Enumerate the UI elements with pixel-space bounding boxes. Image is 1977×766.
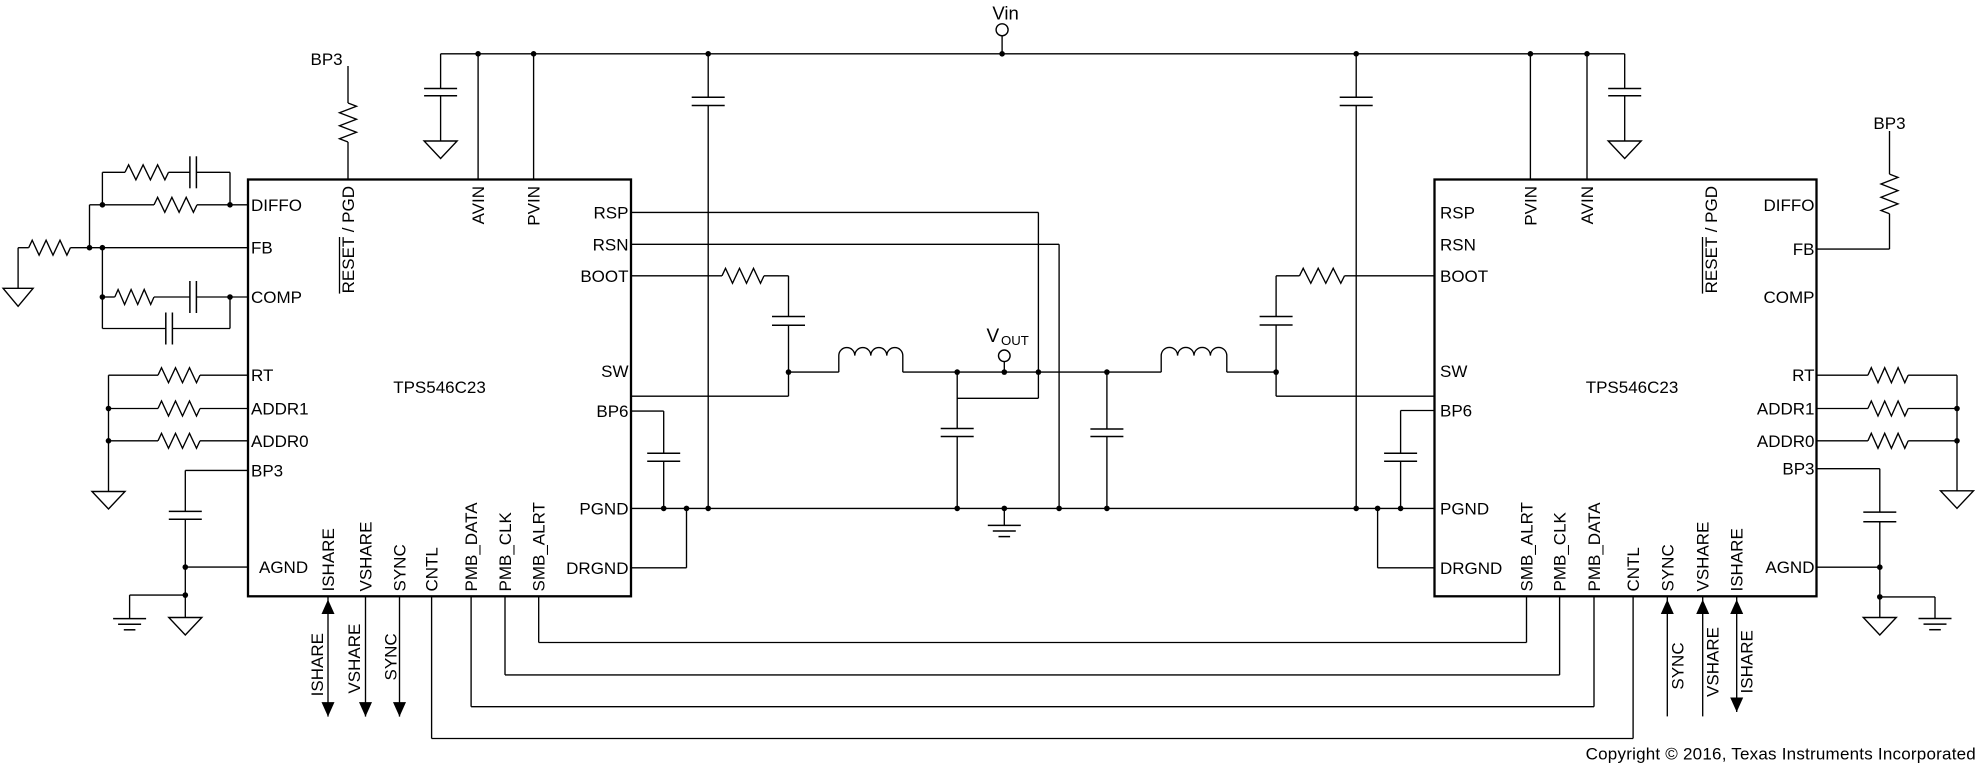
U1 pin COMP label	[251, 288, 302, 307]
wire COMP bottom branch	[102, 328, 165, 330]
wire U2 AGND	[1817, 566, 1880, 568]
wire U1 RSN	[631, 243, 1059, 245]
wire C8 to PGND	[663, 461, 665, 508]
ground earth (AGND right)	[1919, 619, 1952, 630]
wire R11 to vertical	[1908, 374, 1957, 376]
capacitor C8	[647, 453, 680, 461]
svg-text:AGND: AGND	[1765, 558, 1814, 577]
wire U2 DRGND	[1378, 508, 1435, 567]
U2 pin SW label	[1440, 362, 1467, 381]
U1 pin BP6 label	[596, 402, 628, 421]
junction dot SW node right	[1273, 369, 1279, 375]
wire Vin rail	[441, 53, 1625, 55]
junction dot SW node left	[786, 369, 792, 375]
wire AGND down	[184, 567, 186, 595]
svg-text:PMB_DATA: PMB_DATA	[1585, 502, 1604, 592]
U2 pin ADDR0 label	[1757, 432, 1815, 451]
wire DIFFO-FB jog	[90, 205, 103, 248]
U1 pin DIFFO label	[251, 196, 302, 215]
junction dot AGND right	[1877, 564, 1883, 570]
ground (AGND right)	[1863, 618, 1896, 636]
wire R12 to vertical	[1908, 408, 1957, 410]
svg-text:BOOT: BOOT	[1440, 267, 1488, 286]
svg-text:RSP: RSP	[594, 203, 629, 222]
svg-text:COMP: COMP	[1764, 288, 1815, 307]
BP3 net label (left)	[311, 50, 343, 69]
U2 pin RSN label	[1440, 235, 1476, 254]
wire U1 AGND	[185, 566, 248, 568]
resistor R8	[158, 433, 200, 448]
svg-text:BP3: BP3	[1782, 460, 1814, 479]
wire U2 SW	[1276, 372, 1434, 396]
IC U1 TPS546C23 (left)	[248, 180, 631, 597]
wire PMB_DATA bus	[471, 596, 1594, 706]
wire ADDR1 row	[109, 408, 159, 410]
wire FB-COMP vertical	[101, 248, 103, 329]
wire U1 PVIN	[533, 54, 535, 180]
wire C9 top	[956, 372, 958, 428]
svg-text:SMB_ALRT: SMB_ALRT	[1518, 502, 1537, 591]
ground (RT/ADDR)	[92, 492, 125, 510]
BP3 net label (right)	[1873, 114, 1905, 133]
wire U2 AVIN	[1586, 54, 1588, 180]
wire C6 to PGND rail	[707, 106, 709, 509]
wire AGND to earth ground	[130, 595, 186, 619]
U2 pin ISHARE label	[1728, 528, 1747, 591]
resistor R1	[340, 103, 357, 142]
wire R8 to U1 ADDR0	[200, 440, 248, 442]
svg-text:SYNC: SYNC	[382, 633, 401, 680]
svg-text:PGND: PGND	[1440, 499, 1489, 518]
wire DIFFO row left	[102, 204, 154, 206]
wire R2 to C1	[169, 171, 190, 173]
resistor R14	[1881, 174, 1898, 214]
ground earth (PGND)	[988, 525, 1021, 536]
wire PGND rail	[631, 507, 1435, 509]
junction dots COMP row	[100, 294, 233, 300]
wire R7 to U1 ADDR1	[200, 408, 248, 410]
svg-text:BP3: BP3	[1873, 114, 1905, 133]
junction dot AGND	[183, 564, 189, 570]
U2 pin SMB_ALRT label	[1518, 502, 1537, 591]
wire SMB_ALRT bus	[539, 596, 1527, 642]
wire C14 to rail	[1624, 54, 1626, 89]
wire R6 to U1 RT	[200, 374, 248, 376]
U2 pin RSP label	[1440, 203, 1475, 222]
capacitor C11	[1260, 317, 1293, 326]
U2 pin COMP label	[1764, 288, 1815, 307]
U2 pin ADDR1 label	[1757, 400, 1815, 419]
junction dots FB row	[87, 245, 106, 251]
junction dots VOUT row	[954, 369, 1109, 375]
resistor R11	[1868, 368, 1908, 383]
U2 pin CNTL label	[1624, 547, 1643, 591]
svg-text:RT: RT	[251, 366, 273, 385]
svg-text:BP3: BP3	[251, 461, 283, 480]
wire U1 BP6	[631, 411, 664, 453]
wire C7 to SW node	[788, 325, 790, 372]
resistor R4	[29, 240, 71, 255]
wire R4 to U1 FB	[70, 247, 248, 249]
VSHARE arrow right	[1696, 596, 1723, 716]
svg-text:ISHARE: ISHARE	[308, 633, 327, 696]
wire R9 to C7	[764, 276, 789, 317]
svg-text:RESET / PGD: RESET / PGD	[1702, 186, 1721, 293]
wire C5 to ground	[440, 96, 442, 141]
wire BP3 to R14	[1889, 131, 1891, 174]
wire RT/ADDR vertical right	[1956, 375, 1958, 491]
capacitor C15	[1863, 512, 1896, 522]
svg-text:FB: FB	[251, 239, 273, 258]
U1 pin VSHARE label	[357, 522, 376, 592]
wire AGND right down	[1879, 567, 1881, 597]
U1 pin RSP label	[594, 203, 629, 222]
wire PMB_CLK bus	[505, 596, 1560, 675]
U1 pin PMB_CLK label	[496, 511, 515, 591]
svg-text:DIFFO: DIFFO	[251, 196, 302, 215]
U1 pin ADDR1 label	[251, 400, 309, 419]
wire C4 to AGND	[184, 519, 186, 567]
SYNC arrow left	[382, 596, 407, 716]
wire RSP vertical	[1037, 212, 1039, 398]
ISHARE arrow right	[1730, 596, 1757, 712]
svg-text:TPS546C23: TPS546C23	[393, 378, 486, 397]
wire RSN vertical	[1058, 244, 1060, 508]
svg-text:V: V	[987, 326, 1000, 347]
U2 pin RT label	[1792, 366, 1814, 385]
U2 pin PGND label	[1440, 499, 1489, 518]
IC U2 TPS546C23 (right)	[1435, 180, 1817, 597]
inductor L2	[1161, 347, 1227, 372]
inductor L1	[839, 348, 903, 373]
U1 pin BP3 label	[251, 461, 283, 480]
junction dots on Vin rail	[475, 51, 1589, 57]
U2 pin FB label	[1793, 240, 1815, 259]
resistor R5	[115, 290, 154, 305]
svg-text:AVIN: AVIN	[469, 186, 488, 224]
wire C6 to rail	[707, 54, 709, 97]
capacitor C13	[1340, 97, 1373, 105]
svg-text:ADDR0: ADDR0	[1757, 432, 1815, 451]
svg-text:RT: RT	[1792, 366, 1814, 385]
wire AGND to triangle	[184, 595, 186, 617]
junction dot RSN on PGND	[1056, 506, 1062, 512]
svg-text:COMP: COMP	[251, 288, 302, 307]
svg-text:PMB_CLK: PMB_CLK	[1551, 511, 1570, 591]
wire C14 to ground	[1624, 96, 1626, 141]
U2 pin PMB_DATA label	[1585, 502, 1604, 592]
junction dots PGND rail	[661, 506, 1403, 512]
svg-text:RSN: RSN	[593, 235, 629, 254]
wire BP3 to R1	[347, 66, 349, 103]
svg-text:AVIN: AVIN	[1578, 186, 1597, 224]
wire R14 to U2 FB	[1817, 214, 1890, 249]
svg-text:RSN: RSN	[1440, 235, 1476, 254]
U2 device name label	[1586, 378, 1679, 397]
wire U1 SW	[631, 372, 789, 396]
U1 pin SYNC label	[391, 544, 410, 591]
wire C10 top	[1106, 372, 1108, 429]
wire C13 to PGND rail	[1355, 106, 1357, 509]
wire C10 to PGND	[1106, 437, 1108, 509]
ground (AGND left)	[169, 618, 202, 636]
svg-text:Vin: Vin	[992, 3, 1018, 24]
resistor R13	[1868, 433, 1908, 448]
U1 pin RSN label	[593, 235, 629, 254]
wire L2 to SW node right	[1227, 371, 1276, 373]
svg-text:ADDR1: ADDR1	[1757, 400, 1815, 419]
wire R10 to U2 BOOT	[1345, 275, 1435, 277]
U1 pin CNTL label	[423, 547, 442, 591]
resistor R3	[154, 197, 197, 212]
capacitor C2	[190, 281, 197, 313]
wire RT/ADDR vertical	[108, 375, 110, 491]
wire top RC branch left	[102, 171, 125, 173]
U2 pin AGND label	[1765, 558, 1814, 577]
wire FB row	[18, 247, 29, 249]
ground earth (AGND left)	[113, 619, 146, 630]
ground (C5)	[424, 141, 457, 159]
U2 pin VSHARE label	[1694, 522, 1713, 592]
U2 pin BOOT label	[1440, 267, 1488, 286]
wire U1 RSP	[631, 211, 1038, 213]
wire AGND to triangle right	[1879, 597, 1881, 618]
U1 pin BOOT label	[580, 267, 628, 286]
svg-text:ADDR0: ADDR0	[251, 432, 309, 451]
wire CNTL bus	[432, 596, 1634, 738]
svg-text:OUT: OUT	[1001, 333, 1029, 348]
wire U2 ADDR0	[1817, 440, 1868, 442]
capacitor C5	[424, 89, 457, 96]
capacitor C14	[1608, 89, 1641, 96]
resistor R9	[722, 268, 764, 283]
U1 pin ADDR0 label	[251, 432, 309, 451]
svg-text:PGND: PGND	[579, 499, 628, 518]
capacitor C4	[169, 511, 202, 519]
U1 pin AGND label	[259, 558, 308, 577]
wire C5 to rail	[440, 54, 442, 89]
ground (RT/ADDR right)	[1941, 491, 1974, 509]
wire branch right drop	[229, 172, 231, 205]
svg-text:SYNC: SYNC	[1658, 544, 1677, 591]
wire U2 BP6	[1401, 411, 1435, 454]
junction dot AGND gnd node	[183, 592, 189, 598]
wire C1 to right branch	[196, 171, 230, 173]
U1 pin RT label	[251, 366, 273, 385]
wire U2 BP3	[1817, 469, 1880, 512]
capacitor C1	[190, 156, 197, 188]
U2 pin RESET/PGD label	[1702, 186, 1721, 294]
svg-text:SMB_ALRT: SMB_ALRT	[530, 502, 549, 591]
U2 pin PMB_CLK label	[1551, 511, 1570, 591]
resistor R2	[125, 165, 169, 180]
wire C11 to R10	[1276, 276, 1299, 317]
wire C11 to SW node	[1275, 325, 1277, 372]
U1 device name label	[393, 378, 486, 397]
wire U2 RT	[1817, 374, 1868, 376]
U1 pin PVIN label	[525, 186, 544, 226]
svg-text:VSHARE: VSHARE	[345, 624, 364, 694]
capacitor C12	[1384, 453, 1417, 461]
U1 pin FB label	[251, 239, 273, 258]
svg-text:SW: SW	[1440, 362, 1467, 381]
svg-text:ISHARE: ISHARE	[1728, 528, 1747, 591]
svg-text:SYNC: SYNC	[391, 544, 410, 591]
U2 pin SYNC label	[1658, 544, 1677, 591]
U1 pin PMB_DATA label	[462, 502, 481, 592]
wire C15 to AGND	[1879, 522, 1881, 567]
U2 pin BP6 label	[1440, 402, 1472, 421]
U2 pin DRGND label	[1440, 559, 1502, 578]
U1 pin SMB_ALRT label	[530, 502, 549, 591]
U1 pin PGND label	[579, 499, 628, 518]
svg-text:CNTL: CNTL	[1624, 547, 1643, 591]
wire C2 to U1 COMP	[196, 296, 248, 298]
U2 pin PVIN label	[1521, 186, 1540, 226]
wire U1 BP3	[185, 470, 248, 511]
U1 pin RESET/PGD label	[339, 186, 358, 294]
Vin input terminal	[992, 3, 1018, 54]
junction dots RT/ADDR	[106, 406, 112, 444]
svg-text:VSHARE: VSHARE	[357, 522, 376, 592]
U1 pin SW label	[601, 362, 628, 381]
wire U1 AVIN	[477, 54, 479, 180]
junction dots DIFFO row	[100, 202, 233, 208]
wire PGND to earth ground	[1003, 508, 1005, 525]
wire RSP jog to VOUT cap	[957, 397, 1038, 399]
capacitor C6	[692, 97, 725, 105]
svg-text:CNTL: CNTL	[423, 547, 442, 591]
U2 pin DIFFO label	[1764, 196, 1815, 215]
svg-text:BOOT: BOOT	[580, 267, 628, 286]
junction dot AGND right gnd node	[1877, 594, 1883, 600]
junction dots RT/ADDR right	[1954, 406, 1960, 444]
ground (C14)	[1608, 141, 1641, 159]
U1 pin ISHARE label	[319, 528, 338, 591]
VSHARE arrow left	[345, 596, 372, 716]
svg-text:RSP: RSP	[1440, 203, 1475, 222]
svg-text:Copyright © 2016, Texas Instru: Copyright © 2016, Texas Instruments Inco…	[1586, 744, 1976, 763]
svg-text:PMB_CLK: PMB_CLK	[496, 511, 515, 591]
wire R13 to vertical	[1908, 440, 1957, 442]
wire COMP row left	[102, 296, 114, 298]
svg-text:SYNC: SYNC	[1668, 642, 1687, 689]
copyright notice	[1586, 744, 1976, 763]
U2 pin BP3 label	[1782, 460, 1814, 479]
wire R4 to ground	[17, 248, 19, 289]
svg-text:PVIN: PVIN	[525, 186, 544, 226]
svg-text:ISHARE: ISHARE	[1738, 630, 1757, 693]
svg-text:BP6: BP6	[596, 402, 628, 421]
svg-text:BP3: BP3	[311, 50, 343, 69]
svg-text:DRGND: DRGND	[1440, 559, 1502, 578]
capacitor C9	[941, 429, 974, 437]
svg-text:PMB_DATA: PMB_DATA	[462, 502, 481, 592]
capacitor C10	[1090, 429, 1123, 437]
svg-text:VSHARE: VSHARE	[1694, 522, 1713, 592]
svg-text:TPS546C23: TPS546C23	[1586, 378, 1679, 397]
capacitor C3	[166, 313, 173, 345]
SYNC arrow right	[1661, 596, 1688, 716]
resistor R12	[1868, 401, 1908, 416]
resistor R6	[158, 368, 200, 383]
wire U1 DRGND	[631, 508, 687, 567]
wire C13 to rail	[1355, 54, 1357, 97]
wire branch left drop	[101, 172, 103, 205]
svg-text:FB: FB	[1793, 240, 1815, 259]
wire U1 BOOT	[631, 275, 722, 277]
resistor R10	[1300, 268, 1345, 283]
wire C12 to PGND	[1400, 461, 1402, 508]
svg-text:SW: SW	[601, 362, 628, 381]
wire ADDR0 row	[109, 440, 159, 442]
wire R5 to C2	[154, 296, 190, 298]
U2 pin AVIN label	[1578, 186, 1597, 224]
svg-text:BP6: BP6	[1440, 402, 1472, 421]
svg-text:AGND: AGND	[259, 558, 308, 577]
wire C3 to COMP right	[172, 297, 230, 329]
svg-text:DIFFO: DIFFO	[1764, 196, 1815, 215]
capacitor C7	[772, 317, 805, 326]
wire U2 ADDR1	[1817, 408, 1868, 410]
wire SW to L1	[789, 371, 839, 373]
svg-text:PVIN: PVIN	[1521, 186, 1540, 226]
VOUT terminal	[987, 326, 1029, 372]
U1 pin AVIN label	[469, 186, 488, 224]
svg-text:ISHARE: ISHARE	[319, 528, 338, 591]
ground (FB divider)	[3, 288, 33, 306]
wire R1 to U1 RESET/PGD	[347, 142, 349, 180]
ISHARE arrow left	[308, 596, 335, 716]
svg-text:DRGND: DRGND	[566, 559, 628, 578]
resistor R7	[158, 401, 200, 416]
wire AGND to earth ground right	[1880, 597, 1935, 619]
wire R3 to U1 DIFFO	[197, 204, 248, 206]
svg-text:RESET / PGD: RESET / PGD	[339, 186, 358, 293]
wire VOUT row	[903, 371, 1161, 373]
wire RT row	[109, 374, 159, 376]
junction dot RSP on VOUT row	[1036, 369, 1042, 375]
wire C9 to PGND	[956, 437, 958, 509]
svg-text:VSHARE: VSHARE	[1704, 627, 1723, 697]
U1 pin DRGND label	[566, 559, 628, 578]
wire U2 PVIN	[1529, 54, 1531, 180]
svg-text:ADDR1: ADDR1	[251, 400, 309, 419]
